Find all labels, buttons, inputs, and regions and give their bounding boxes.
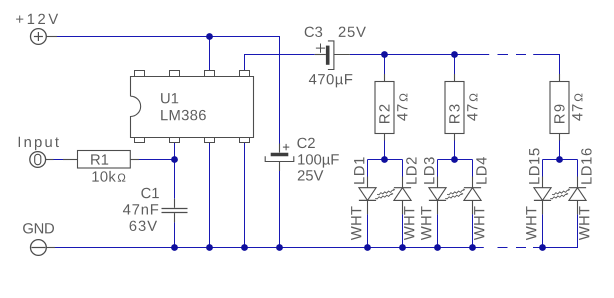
wire LD1/LD2 split: [368, 159, 403, 161]
wire GND rail dash 2: [516, 247, 526, 249]
label LD2: [406, 157, 416, 183]
wire R9 to split: [559, 141, 561, 160]
label WHT right LD16: [579, 206, 589, 240]
label LD1: [354, 157, 364, 183]
junction GND pin3: [206, 244, 213, 251]
wire LD15 to GND rail: [542, 214, 544, 247]
connector GND: [23, 223, 55, 255]
wire LD15/LD16 split: [543, 159, 578, 161]
junction split LD1/LD2: [381, 156, 388, 163]
capacitor C2 (polarized): [265, 138, 339, 181]
resistor R3: [445, 74, 477, 141]
resistor R9: [550, 74, 582, 141]
LED LD4: [464, 177, 481, 215]
junction GND LD1: [364, 244, 371, 251]
U1 top pin 7: [170, 71, 180, 77]
label LD15: [529, 148, 539, 183]
label WHT left LD1: [351, 206, 361, 240]
wire pin4 to GND rail: [244, 143, 246, 248]
op-amp U1 LM386 body: [131, 77, 254, 138]
junction R1/C1/pin2: [171, 156, 178, 163]
wire LD1 anode: [367, 160, 369, 177]
wire LD15 anode: [542, 160, 544, 177]
junction pin6/+12V: [206, 33, 213, 40]
LED light arrows at x=384.5: [377, 189, 394, 195]
wire LD3 to GND rail: [437, 214, 439, 247]
wire LED rail: [350, 54, 489, 56]
wire R2 top: [384, 55, 386, 75]
capacitor C1: [123, 188, 188, 231]
wire LED rail dash 1: [498, 54, 509, 56]
wire junction to C1: [174, 160, 176, 199]
wire LD1 to GND rail: [367, 214, 369, 247]
U1 top pin 6: [205, 71, 215, 77]
wire LD16 cathode top: [577, 160, 579, 177]
junction split LD3/LD4: [451, 156, 458, 163]
wire LD3/LD4 split: [438, 159, 473, 161]
U1 top pin 5: [240, 71, 250, 77]
LED light arrows at x=559.5: [552, 189, 569, 195]
LED light arrows at x=454.5: [447, 189, 464, 195]
U1 top pin 8: [135, 71, 145, 77]
wire pin5 to C3: [245, 55, 315, 71]
resistor R1: [63, 151, 139, 182]
LED LD15: [534, 177, 551, 215]
junction LED rail R2: [381, 51, 388, 58]
label LD3: [424, 157, 434, 184]
wire R to split at 384.5: [384, 141, 386, 160]
connector Input: [19, 137, 59, 168]
junction GND C1: [171, 244, 178, 251]
label WHT right LD2: [404, 206, 414, 240]
wire pin2 down: [174, 143, 176, 160]
wire LD4 cathode top: [472, 160, 474, 177]
wire LED rail dash 2: [516, 54, 526, 56]
wire R to split at 454.5: [454, 141, 456, 160]
label LD4: [476, 157, 486, 184]
junction GND LD4: [469, 244, 476, 251]
junction GND LD2: [399, 244, 406, 251]
U1 bottom pin 2: [170, 138, 180, 143]
wire LD2 to GND rail: [402, 214, 404, 247]
wire pin3 to GND rail: [209, 143, 211, 248]
wire C2 to GND rail: [279, 171, 281, 248]
junction LED rail R3: [451, 51, 458, 58]
U1 bottom pin 4: [240, 138, 250, 143]
U1 bottom pin 1: [135, 138, 145, 143]
label WHT left LD3: [421, 206, 431, 240]
LED LD2: [394, 177, 411, 215]
wire LD4 to GND rail: [472, 214, 474, 247]
resistor R2: [375, 74, 407, 141]
wire R1 to pin2 junction: [139, 159, 175, 161]
junction split LD15/LD16: [556, 156, 563, 163]
wire GND rail: [55, 247, 484, 249]
label LD16: [581, 149, 591, 184]
capacitor C3 (polarized): [305, 27, 366, 88]
junction GND LD3: [434, 244, 441, 251]
junction GND LD15: [539, 244, 546, 251]
wire R3 top: [454, 55, 456, 75]
connector +12V: [16, 14, 58, 45]
wire LD3 anode: [437, 160, 439, 177]
wire +12V rail: [57, 37, 280, 144]
wire Input to R1: [54, 159, 64, 161]
label WHT left LD15: [526, 206, 536, 240]
wire C1 to GND rail: [174, 222, 176, 247]
label WHT right LD4: [474, 206, 484, 240]
LED LD1: [359, 177, 376, 215]
wire pin6 to +12V rail: [209, 37, 211, 71]
wire GND rail to LD16: [533, 214, 578, 247]
wire LED rail to R9: [533, 55, 559, 75]
junction GND pin4: [241, 244, 248, 251]
wire LD2 cathode top: [402, 160, 404, 177]
LED LD3: [429, 177, 446, 215]
LED LD16: [569, 177, 586, 215]
junction GND C2: [276, 244, 283, 251]
U1 bottom pin 3: [205, 138, 215, 143]
wire GND rail dash 1: [498, 247, 508, 249]
